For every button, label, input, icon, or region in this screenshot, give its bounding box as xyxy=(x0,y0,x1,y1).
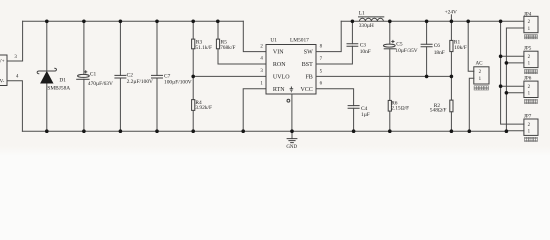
svg-text:JP5: JP5 xyxy=(524,46,532,52)
wire GND vertical bus xyxy=(506,28,524,131)
resistor R6 2.15ohm/F xyxy=(388,100,409,131)
wire JP6 pin 1 xyxy=(506,92,524,94)
svg-text:D1: D1 xyxy=(59,78,66,84)
wire AC pin 1 to GND rail xyxy=(469,78,474,131)
svg-text:1µF: 1µF xyxy=(361,112,370,118)
wire R3 bottom to R4 top (UVLO divider) xyxy=(192,49,194,100)
node junctions +24V bus xyxy=(499,55,503,59)
wire RON: R5 bottom to pin 4 xyxy=(218,49,266,64)
wire JP5 pin 2 xyxy=(501,55,524,57)
connector JP1 (left edge, V+/V-) xyxy=(0,55,7,86)
op-amp U1 LM5017 regulator xyxy=(266,37,316,94)
svg-text:10µF/35V: 10µF/35V xyxy=(395,48,417,54)
wire JP6 pin 2 xyxy=(501,85,524,87)
ground xyxy=(286,131,297,150)
svg-text:768k/F: 768k/F xyxy=(220,45,235,51)
svg-text:C1: C1 xyxy=(90,71,97,77)
svg-text:C3: C3 xyxy=(360,43,367,49)
svg-text:2.2µF/100V: 2.2µF/100V xyxy=(127,79,153,85)
svg-text:JP4: JP4 xyxy=(524,11,532,17)
svg-text:10nF: 10nF xyxy=(360,49,371,55)
wire UVLO: divider tap to pin 3 xyxy=(193,75,266,77)
svg-text:SMBJ58A: SMBJ58A xyxy=(47,86,70,92)
wire GND bottom rail xyxy=(22,130,506,132)
svg-text:U1: U1 xyxy=(270,37,277,43)
connector JP6 xyxy=(524,75,538,103)
connector JP4 xyxy=(524,11,538,38)
svg-text:548Ω/F: 548Ω/F xyxy=(430,108,447,114)
svg-text:330µH: 330µH xyxy=(359,23,374,29)
svg-text:SW: SW xyxy=(304,50,313,56)
wire C5 bottom to R6 xyxy=(389,49,391,101)
node junctions FB xyxy=(425,75,429,79)
diode D1 TVS SMBJ58A xyxy=(37,21,70,131)
svg-text:UVLO: UVLO xyxy=(273,75,290,81)
wire V- pin4 to GND rail xyxy=(7,81,22,132)
wire VCC pin 6 to C4 xyxy=(316,89,354,106)
wire RTN pin 1 to GND rail xyxy=(243,89,266,131)
wire JP7 pin 1 xyxy=(506,130,524,132)
resistor R1 10k/F xyxy=(450,21,467,76)
wire JP5 pin 1 xyxy=(506,62,524,64)
svg-text:JP6: JP6 xyxy=(524,75,532,81)
wire BST pin 7 to C3 xyxy=(316,46,352,64)
connector AC xyxy=(474,60,489,84)
svg-text:2.15Ω/F: 2.15Ω/F xyxy=(391,105,409,111)
svg-text:RTN: RTN xyxy=(273,87,285,93)
svg-text:L1: L1 xyxy=(359,11,365,17)
node junctions +24V rail xyxy=(351,20,355,24)
resistor R3 51.1k/F xyxy=(192,21,212,51)
label AC connector text body xyxy=(474,86,488,90)
capacitor C1 470uF/63V xyxy=(76,21,113,131)
svg-text:3.92k/F: 3.92k/F xyxy=(195,105,212,111)
wire EP to GND rail xyxy=(291,94,293,131)
svg-text:10k/F: 10k/F xyxy=(454,45,467,51)
svg-text:BST: BST xyxy=(302,62,313,68)
resistor R2 548ohm/F xyxy=(430,76,453,131)
svg-text:VCC: VCC xyxy=(300,87,312,93)
inductor L1 330uH xyxy=(358,11,384,30)
node junctions GND rail xyxy=(45,129,49,133)
node junctions VIN rail xyxy=(45,20,49,24)
svg-text:AC: AC xyxy=(476,60,484,66)
svg-text:V-: V- xyxy=(0,79,5,84)
capacitor C7 100uF/100V xyxy=(151,21,192,131)
wire VIN riser to pin 2 xyxy=(243,21,266,51)
svg-text:V+: V+ xyxy=(0,59,5,64)
capacitor C3 10nF xyxy=(347,21,371,55)
svg-text:LM5017: LM5017 xyxy=(290,37,309,43)
connector JP5 xyxy=(524,46,538,74)
capacitor C6 18nF xyxy=(421,21,445,76)
node +24V power flag xyxy=(445,10,457,22)
svg-text:51.1k/F: 51.1k/F xyxy=(195,45,212,51)
svg-text:C2: C2 xyxy=(127,73,134,79)
wire SW pin 8 to rail xyxy=(316,21,341,51)
node UVLO tap xyxy=(191,75,195,79)
svg-text:470µF/63V: 470µF/63V xyxy=(88,81,113,87)
capacitor C2 2.2uF/100V xyxy=(114,21,153,131)
wire VIN top rail xyxy=(23,20,244,22)
U1 EP pad symbol xyxy=(290,87,294,92)
resistor R5 768k/F xyxy=(216,21,235,51)
wire FB pin 5 xyxy=(316,75,451,77)
svg-text:FB: FB xyxy=(305,75,312,81)
svg-text:+24V: +24V xyxy=(445,10,457,16)
wire +24V vertical bus xyxy=(501,21,524,124)
svg-text:JP7: JP7 xyxy=(524,113,532,119)
wire V+ pin3 to VIN rail xyxy=(7,21,23,61)
svg-text:GND: GND xyxy=(286,145,297,150)
capacitor C4 1uF xyxy=(348,106,370,132)
capacitor C5 10uF/35V xyxy=(383,21,417,54)
svg-text:RON: RON xyxy=(273,62,286,68)
wire +24V rail to AC pin 2 xyxy=(468,21,474,71)
wire JP4 pin 1 stub xyxy=(525,35,538,39)
resistor R4 3.92k/F xyxy=(192,100,212,132)
svg-text:C5: C5 xyxy=(396,42,403,48)
svg-text:VIN: VIN xyxy=(273,50,284,56)
svg-text:C7: C7 xyxy=(164,73,171,79)
svg-text:C6: C6 xyxy=(434,43,441,49)
svg-text:18nF: 18nF xyxy=(434,50,445,56)
svg-text:100µF/100V: 100µF/100V xyxy=(164,80,192,86)
node test point circle xyxy=(287,99,290,102)
connector JP7 xyxy=(524,113,538,141)
node junctions GND bus xyxy=(505,61,509,65)
wire SW / +24V top rail xyxy=(341,20,524,22)
